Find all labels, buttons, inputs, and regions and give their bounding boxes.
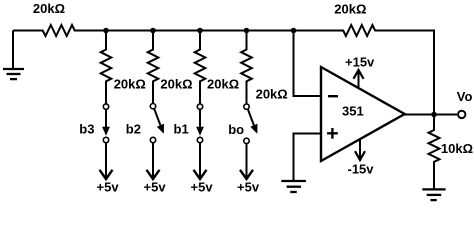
svg-text:+5v: +5v — [144, 180, 167, 195]
svg-text:20kΩ: 20kΩ — [207, 77, 239, 92]
svg-text:Vo: Vo — [457, 89, 473, 104]
svg-text:b1: b1 — [174, 122, 189, 137]
svg-text:+5v: +5v — [97, 180, 120, 195]
svg-text:b2: b2 — [126, 122, 141, 137]
svg-text:+5v: +5v — [237, 180, 260, 195]
svg-text:10kΩ: 10kΩ — [441, 141, 473, 156]
svg-text:+5v: +5v — [191, 180, 214, 195]
svg-text:20kΩ: 20kΩ — [334, 2, 366, 17]
svg-text:+15v: +15v — [345, 55, 375, 70]
svg-text:b3: b3 — [79, 122, 94, 137]
svg-text:351: 351 — [342, 104, 364, 119]
svg-text:20kΩ: 20kΩ — [33, 1, 65, 16]
svg-text:20kΩ: 20kΩ — [256, 86, 288, 101]
svg-text:bo: bo — [228, 122, 244, 137]
svg-text:20kΩ: 20kΩ — [114, 77, 146, 92]
svg-text:20kΩ: 20kΩ — [160, 77, 192, 92]
svg-text:-15v: -15v — [348, 162, 375, 177]
